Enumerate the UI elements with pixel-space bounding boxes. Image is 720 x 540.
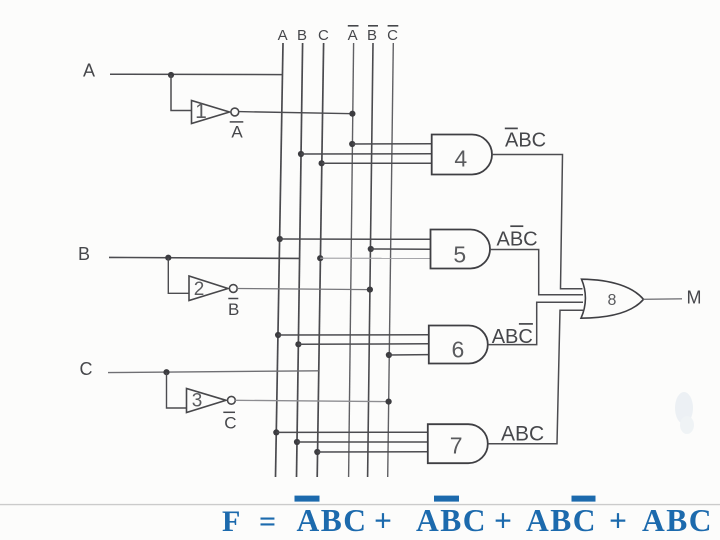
svg-text:ABC: ABC — [501, 423, 544, 446]
svg-text:=: = — [259, 505, 276, 538]
svg-text:C: C — [80, 359, 93, 379]
node label B (bus) — [297, 27, 307, 44]
value label NOT-A B C at gate 4 output — [505, 128, 546, 151]
junction: A tap for gate 5 — [277, 236, 283, 242]
wire: input B horizontal — [109, 257, 300, 258]
wire: inverter 1 output to bus NOT-A — [239, 112, 353, 114]
wire: A tap to gate 7 input — [276, 431, 428, 433]
junction: C tap for gate 7 — [314, 449, 320, 455]
svg-text:ABC: ABC — [642, 503, 713, 538]
junction: A tap for gate 7 — [273, 429, 279, 435]
inverter 1 — [192, 100, 239, 124]
svg-text:ABC: ABC — [416, 503, 487, 538]
wire: OR gate 8 output — [644, 298, 683, 301]
svg-text:1: 1 — [195, 100, 207, 123]
svg-text:B: B — [367, 27, 377, 44]
wire: inverter 3 output to bus NOT-C — [235, 400, 388, 401]
svg-text:7: 7 — [450, 433, 463, 459]
svg-text:ABC: ABC — [297, 503, 368, 538]
wire: gate 4 output to OR gate — [492, 155, 583, 289]
value label A B NOT-C at gate 6 output — [492, 324, 533, 348]
junction: NOT-A tap for gate 4 — [349, 141, 355, 147]
output label M — [687, 288, 702, 308]
svg-text:B: B — [228, 300, 239, 319]
svg-text:C: C — [318, 27, 329, 44]
wire: B tap to gate 6 input — [298, 343, 428, 346]
wire: input C horizontal — [108, 371, 319, 373]
wire: A tap to gate 5 input — [280, 238, 431, 240]
wire: B down to inverter 2 — [168, 258, 189, 294]
junction: B tap for gate 6 — [295, 341, 301, 347]
svg-text:5: 5 — [453, 242, 466, 268]
svg-text:A: A — [83, 61, 95, 81]
svg-text:ABC: ABC — [526, 503, 597, 538]
svg-text:A: A — [231, 123, 243, 142]
input label A — [83, 61, 95, 81]
wire: gate 6 output to OR gate — [488, 302, 583, 344]
wire: inverter 2 output to bus NOT-B — [237, 289, 370, 290]
decorative scan smudge — [675, 392, 694, 434]
wire: B tap to gate 7 input — [297, 441, 428, 443]
svg-text:4: 4 — [454, 146, 467, 172]
wire: bus NOT-C vertical — [388, 43, 394, 477]
wire: bus C vertical — [317, 43, 323, 477]
node label NOT-C (bus) — [387, 26, 398, 44]
svg-text:2: 2 — [194, 279, 205, 300]
wire: NOT-B tap to gate 5 input — [371, 248, 431, 250]
OR gate 8 — [581, 279, 644, 318]
node label A (bus) — [278, 27, 288, 44]
junction: B tap for gate 4 — [298, 151, 304, 157]
svg-text:A: A — [278, 27, 288, 44]
formula F = NOT-A B C + A NOT-B C + A B NOT-C + A B C — [222, 496, 713, 538]
svg-text:6: 6 — [452, 337, 465, 363]
junction: B tap for inverter 2 — [165, 255, 171, 261]
svg-text:M: M — [687, 288, 702, 308]
junction: C tap for gate 4 — [319, 160, 325, 166]
node label C (bus) — [318, 27, 329, 44]
value label NOT-A at inverter 1 output — [230, 122, 244, 142]
svg-text:F: F — [222, 505, 240, 538]
wire: NOT-C tap to gate 6 input — [389, 354, 429, 356]
junction: A tap for gate 6 — [275, 332, 281, 338]
junction: NOT-B tap for gate 5 — [368, 246, 374, 252]
wire: input A horizontal — [110, 73, 283, 75]
input label C — [80, 359, 93, 379]
wire: bus NOT-B vertical — [368, 43, 373, 477]
wire: bus NOT-A vertical — [349, 43, 354, 477]
value label A B C at gate 7 output — [501, 423, 544, 446]
value label A NOT-B C at gate 5 output — [497, 226, 538, 250]
wire: C tap to gate 4 input — [322, 162, 432, 164]
wire: B tap to gate 4 input — [301, 153, 432, 155]
junction: B tap for gate 7 — [294, 439, 300, 445]
svg-text:+: + — [609, 503, 627, 538]
wire: A tap to gate 6 input — [278, 334, 429, 336]
node label NOT-A (bus) — [348, 26, 359, 44]
svg-text:A: A — [348, 27, 358, 44]
svg-text:3: 3 — [192, 391, 203, 412]
AND gate 6 — [429, 326, 488, 364]
junction: C tap for gate 5 — [317, 255, 323, 261]
AND gate 4 — [432, 135, 492, 175]
wire: NOT-A tap to gate 4 input — [352, 143, 432, 145]
junction: inverter 2 output on bus NOT-B — [367, 287, 373, 293]
inverter 3 — [187, 389, 236, 413]
value label NOT-C at inverter 3 output — [223, 412, 236, 432]
wire: C down to inverter 3 — [167, 372, 187, 408]
svg-text:8: 8 — [608, 292, 617, 309]
wire: gate 5 output to OR gate — [490, 250, 583, 295]
AND gate 7 — [428, 424, 488, 463]
junction: C tap for inverter 3 — [163, 369, 169, 375]
svg-text:+: + — [494, 503, 512, 538]
wire: bus B vertical — [297, 43, 303, 477]
junction: inverter 1 output on bus NOT-A — [349, 111, 355, 117]
svg-text:C: C — [387, 27, 398, 44]
svg-text:ABC: ABC — [505, 130, 546, 152]
svg-text:+: + — [374, 503, 392, 538]
wire: A down to inverter 1 — [171, 75, 192, 111]
horizontal rule above formula — [0, 504, 720, 506]
svg-text:B: B — [78, 244, 90, 264]
wire: C tap to gate 7 input — [317, 451, 428, 453]
junction: NOT-C tap for gate 6 — [386, 352, 392, 358]
svg-text:ABC: ABC — [497, 229, 538, 251]
inverter 2 — [189, 276, 237, 301]
wire: C tap to gate 5 input — [320, 257, 430, 259]
wire: bus A vertical — [276, 43, 284, 477]
node label NOT-B (bus) — [367, 26, 378, 44]
wire: gate 7 output to OR gate — [488, 310, 583, 444]
AND gate 5 — [431, 230, 491, 269]
svg-text:C: C — [224, 413, 236, 432]
value label NOT-B at inverter 2 output — [228, 299, 239, 320]
svg-text:ABC: ABC — [492, 326, 533, 348]
junction: inverter 3 output on bus NOT-C — [386, 399, 392, 405]
svg-text:B: B — [297, 27, 307, 44]
junction: A tap for inverter 1 — [168, 72, 174, 78]
input label B — [78, 244, 90, 264]
